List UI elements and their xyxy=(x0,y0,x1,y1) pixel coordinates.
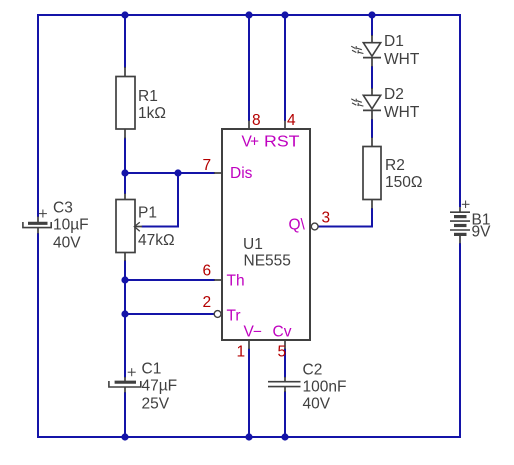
svg-text:2: 2 xyxy=(203,294,212,311)
svg-text:9V: 9V xyxy=(472,224,492,241)
svg-text:40V: 40V xyxy=(53,235,81,252)
svg-text:Dis: Dis xyxy=(230,165,253,182)
svg-text:D1: D1 xyxy=(384,33,404,50)
svg-text:U1: U1 xyxy=(243,236,263,253)
svg-text:47kΩ: 47kΩ xyxy=(138,232,175,249)
svg-text:Q\: Q\ xyxy=(289,217,306,234)
svg-text:1: 1 xyxy=(237,344,246,361)
svg-text:100nF: 100nF xyxy=(303,379,347,396)
svg-text:Cv: Cv xyxy=(273,324,292,341)
svg-text:25V: 25V xyxy=(142,396,170,413)
svg-text:+: + xyxy=(250,134,259,151)
svg-text:47µF: 47µF xyxy=(142,378,178,395)
svg-text:Tr: Tr xyxy=(227,308,241,325)
svg-text:WHT: WHT xyxy=(384,51,420,68)
svg-text:P1: P1 xyxy=(138,205,157,222)
svg-text:10µF: 10µF xyxy=(53,217,89,234)
svg-text:R1: R1 xyxy=(138,88,158,105)
svg-text:RST: RST xyxy=(264,134,300,151)
svg-text:R2: R2 xyxy=(385,157,405,174)
svg-text:NE555: NE555 xyxy=(244,253,291,270)
svg-text:C1: C1 xyxy=(142,361,162,378)
svg-text:4: 4 xyxy=(287,112,296,129)
svg-text:D2: D2 xyxy=(384,86,404,103)
svg-text:Th: Th xyxy=(227,273,245,290)
svg-text:40V: 40V xyxy=(303,396,331,413)
svg-text:6: 6 xyxy=(203,263,212,280)
svg-text:150Ω: 150Ω xyxy=(385,174,422,191)
svg-text:C2: C2 xyxy=(303,362,323,379)
svg-text:8: 8 xyxy=(252,112,261,129)
svg-text:1kΩ: 1kΩ xyxy=(138,105,166,122)
svg-text:−: − xyxy=(253,324,262,341)
svg-text:WHT: WHT xyxy=(384,104,420,121)
svg-text:5: 5 xyxy=(278,344,287,361)
svg-text:C3: C3 xyxy=(53,200,73,217)
svg-text:7: 7 xyxy=(203,157,212,174)
svg-text:3: 3 xyxy=(322,210,331,227)
